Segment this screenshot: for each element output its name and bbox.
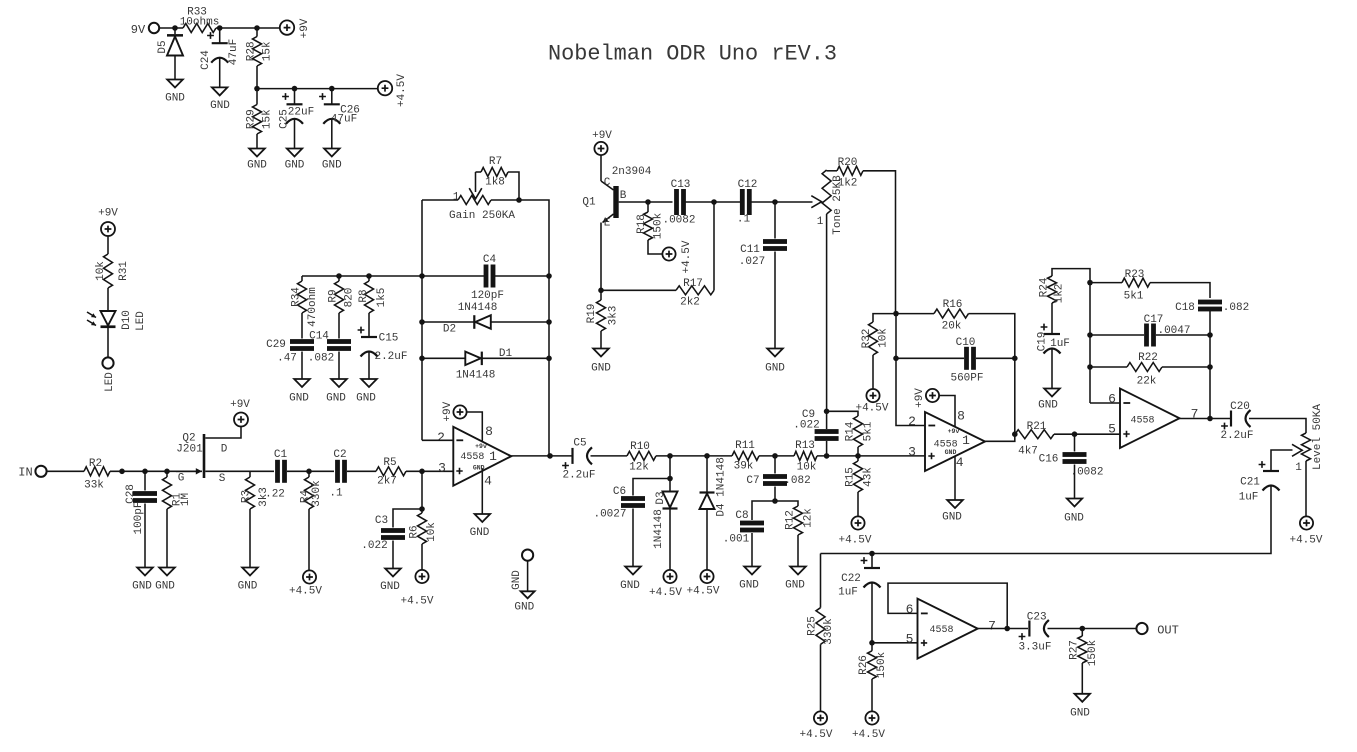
resistor R21 <box>1015 421 1054 458</box>
capacitor C24 <box>200 28 240 70</box>
svg-text:R22: R22 <box>1138 352 1158 364</box>
svg-text:.082: .082 <box>1223 302 1249 314</box>
junction <box>329 86 335 92</box>
svg-text:4558: 4558 <box>460 452 484 463</box>
wire pin5 <box>872 642 918 644</box>
junction <box>419 273 425 279</box>
wire <box>421 544 423 570</box>
svg-text:22k: 22k <box>1137 376 1157 388</box>
svg-text:.22: .22 <box>265 489 285 501</box>
svg-text:4: 4 <box>956 455 964 470</box>
wire <box>685 201 741 203</box>
svg-text:1N4148: 1N4148 <box>456 370 496 382</box>
ground <box>1064 499 1084 525</box>
svg-text:43k: 43k <box>863 467 875 487</box>
pin 7 label <box>1191 407 1199 422</box>
diode D5 <box>157 28 183 56</box>
wire <box>591 455 628 457</box>
svg-text:.082: .082 <box>784 475 810 487</box>
resistor R25 <box>807 554 836 645</box>
svg-text:8: 8 <box>485 424 493 439</box>
svg-text:C16: C16 <box>1039 454 1059 466</box>
wire <box>706 509 708 570</box>
ground <box>942 500 963 524</box>
ground <box>765 349 785 375</box>
power +4.5V <box>289 570 322 597</box>
svg-text:Level 50KA: Level 50KA <box>1312 404 1324 470</box>
wire <box>368 352 370 380</box>
wire <box>871 679 873 712</box>
junction <box>516 197 522 203</box>
wire <box>110 470 199 472</box>
wire <box>774 487 776 502</box>
wire pin6 <box>1090 402 1120 404</box>
svg-text:+9V: +9V <box>592 130 612 142</box>
svg-text:100pF: 100pF <box>133 501 145 534</box>
wire pin2 <box>422 439 453 441</box>
wire pin4 <box>481 468 483 514</box>
resistor R11 <box>732 440 759 473</box>
svg-text:R21: R21 <box>1027 421 1047 433</box>
svg-text:.022: .022 <box>793 420 819 432</box>
svg-text:1: 1 <box>962 433 970 448</box>
resistor R9 <box>328 276 356 313</box>
svg-text:3k3: 3k3 <box>608 306 620 326</box>
diode D3 <box>653 491 678 548</box>
svg-text:GND: GND <box>620 580 640 592</box>
svg-text:C7: C7 <box>746 475 759 487</box>
wire <box>826 441 828 456</box>
wire <box>759 455 794 457</box>
svg-text:C14: C14 <box>309 331 329 343</box>
svg-text:+9v: +9v <box>948 428 960 435</box>
svg-text:1M: 1M <box>180 493 192 506</box>
wire output U4 <box>978 628 1028 630</box>
wire <box>1081 663 1083 694</box>
svg-text:S: S <box>219 473 226 485</box>
ground <box>380 569 401 594</box>
svg-text:+9V: +9V <box>914 388 926 408</box>
svg-text:C19: C19 <box>1037 332 1049 352</box>
svg-text:GND: GND <box>1064 513 1084 525</box>
node 9V input <box>131 23 159 37</box>
wire <box>797 535 799 567</box>
svg-text:GND: GND <box>326 393 346 405</box>
node GND pad <box>511 550 535 614</box>
junction <box>667 476 673 482</box>
wire output <box>511 455 572 457</box>
wire <box>107 236 109 254</box>
capacitor C15 <box>358 327 408 363</box>
ground <box>470 514 491 539</box>
svg-text:2.2uF: 2.2uF <box>562 470 595 482</box>
junction <box>419 319 425 325</box>
svg-text:R9: R9 <box>328 289 340 302</box>
svg-text:+4.5V: +4.5V <box>838 535 871 547</box>
junction <box>1207 332 1213 338</box>
power +4.5V <box>855 389 888 415</box>
wire <box>669 509 671 570</box>
svg-text:1N4148: 1N4148 <box>653 509 665 549</box>
power +9V <box>98 208 118 237</box>
capacitor C1 <box>250 449 287 501</box>
svg-text:C8: C8 <box>735 510 748 522</box>
svg-text:C21: C21 <box>1240 477 1260 489</box>
wiper arrow <box>811 196 821 208</box>
svg-text:D2: D2 <box>443 324 456 336</box>
junction <box>546 356 552 362</box>
svg-text:C22: C22 <box>841 573 861 585</box>
svg-text:120pF: 120pF <box>471 290 504 302</box>
pin 8 label <box>485 424 493 439</box>
wire <box>256 134 258 149</box>
power +9V <box>442 401 467 421</box>
svg-text:C15: C15 <box>379 333 399 345</box>
resistor R22 <box>1090 352 1210 388</box>
svg-text:+4.5V: +4.5V <box>289 586 322 598</box>
capacitor C22 <box>838 554 880 599</box>
resistor R12 <box>775 501 815 535</box>
svg-text:+4.5V: +4.5V <box>681 240 693 273</box>
svg-text:D3: D3 <box>655 491 667 504</box>
wire <box>421 471 423 509</box>
junction <box>1087 364 1093 370</box>
svg-text:G: G <box>178 473 185 485</box>
op-amp U2 <box>925 412 985 471</box>
svg-text:GND: GND <box>785 580 805 592</box>
wire pin2 <box>896 314 925 426</box>
resistor R32 <box>861 314 896 355</box>
wire output U2 <box>985 434 1015 441</box>
svg-text:9V: 9V <box>131 23 146 37</box>
transistor Q1 2n3904 <box>582 155 651 290</box>
svg-text:C18: C18 <box>1175 302 1195 314</box>
resistor R31 <box>95 254 130 288</box>
svg-text:2k2: 2k2 <box>680 297 700 309</box>
svg-text:R5: R5 <box>383 457 396 469</box>
svg-text:5: 5 <box>1108 422 1116 437</box>
svg-text:+4.5V: +4.5V <box>400 596 433 608</box>
svg-text:GND: GND <box>247 160 267 172</box>
resistor R18 <box>636 202 665 254</box>
op-amp U4 <box>918 599 978 659</box>
capacitor C18 <box>1175 300 1249 314</box>
svg-text:R27: R27 <box>1069 640 1081 660</box>
svg-text:560PF: 560PF <box>950 373 983 385</box>
svg-text:10k: 10k <box>878 328 890 348</box>
power +4.5V <box>1289 516 1322 546</box>
power +4.5V <box>378 74 408 107</box>
svg-text:GND: GND <box>155 581 175 593</box>
svg-text:R10: R10 <box>630 441 650 453</box>
svg-text:C1: C1 <box>274 449 288 461</box>
power +4.5V <box>662 240 693 273</box>
junction <box>1012 431 1018 437</box>
pin 2 label <box>437 430 445 445</box>
svg-text:R15: R15 <box>845 467 857 487</box>
wire <box>1051 349 1053 389</box>
junction <box>546 273 552 279</box>
junction <box>1087 280 1093 286</box>
wire <box>491 200 549 456</box>
capacitor C7 <box>746 456 810 487</box>
svg-text:+9v: +9v <box>475 443 487 450</box>
junction <box>254 86 260 92</box>
wire <box>751 533 753 567</box>
ground <box>326 379 347 405</box>
wire <box>857 492 859 517</box>
junction <box>172 25 178 31</box>
capacitor C14 <box>308 331 351 365</box>
svg-text:470ohm: 470ohm <box>307 287 319 327</box>
wire tone to C9 <box>826 214 828 429</box>
svg-text:Nobelman ODR Uno rEV.3: Nobelman ODR Uno rEV.3 <box>548 42 837 67</box>
svg-text:+4.5V: +4.5V <box>649 587 682 599</box>
resistor R34 <box>291 276 320 327</box>
wire pin8 <box>467 412 483 441</box>
svg-text:1: 1 <box>1295 462 1302 474</box>
svg-text:GND: GND <box>591 363 611 375</box>
wire <box>216 27 281 29</box>
svg-text:.027: .027 <box>739 256 765 268</box>
svg-text:C11: C11 <box>740 244 760 256</box>
svg-text:R17: R17 <box>683 278 703 290</box>
wire <box>1051 303 1053 334</box>
junction <box>824 409 830 415</box>
svg-text:1: 1 <box>489 449 497 464</box>
svg-text:1: 1 <box>453 192 460 204</box>
junction <box>419 469 425 475</box>
wire <box>331 119 333 149</box>
wire output U3 <box>1180 418 1232 420</box>
wire <box>47 470 84 472</box>
svg-text:GND: GND <box>132 581 152 593</box>
resistor R16 <box>896 299 1015 434</box>
resistor R17 <box>601 202 714 309</box>
resistor R19 <box>586 290 620 331</box>
junction <box>366 273 372 279</box>
svg-text:47uF: 47uF <box>228 39 240 65</box>
svg-text:Q1: Q1 <box>582 197 596 209</box>
junction <box>306 469 312 475</box>
capacitor C6 <box>593 479 670 521</box>
wire <box>1054 433 1120 435</box>
wire <box>669 456 671 492</box>
junction <box>142 469 148 475</box>
svg-text:C4: C4 <box>483 254 497 266</box>
svg-text:3.3uF: 3.3uF <box>1018 642 1051 654</box>
wire <box>256 66 258 105</box>
svg-text:39k: 39k <box>734 461 754 473</box>
svg-text:R24: R24 <box>1039 277 1051 297</box>
junction <box>1012 356 1018 362</box>
ground <box>155 568 175 593</box>
svg-text:C24: C24 <box>200 50 212 70</box>
wire <box>392 541 394 569</box>
junction <box>419 506 425 512</box>
diode D2 <box>422 302 549 336</box>
resistor R27 <box>1069 629 1100 667</box>
svg-text:.1: .1 <box>737 214 751 226</box>
svg-text:33k: 33k <box>84 480 104 492</box>
svg-text:2n3904: 2n3904 <box>612 166 652 178</box>
svg-text:GND: GND <box>380 581 400 593</box>
junction <box>1004 626 1010 632</box>
junction <box>336 273 342 279</box>
ground <box>238 568 258 593</box>
svg-text:R19: R19 <box>586 304 598 324</box>
capacitor C20 <box>1220 401 1253 442</box>
svg-text:4: 4 <box>484 473 492 488</box>
svg-text:C23: C23 <box>1027 612 1047 624</box>
svg-text:.0082: .0082 <box>662 215 695 227</box>
ground <box>289 379 310 405</box>
svg-text:1k2: 1k2 <box>838 178 858 190</box>
svg-text:GND: GND <box>356 393 376 405</box>
pin 5 label <box>1108 422 1116 437</box>
LED D10 <box>87 310 147 331</box>
svg-text:D: D <box>221 444 228 456</box>
svg-text:10k: 10k <box>426 522 438 542</box>
svg-text:12k: 12k <box>803 508 815 528</box>
junction <box>893 311 899 317</box>
pin 3 label <box>438 461 446 476</box>
svg-text:R28: R28 <box>246 41 258 61</box>
capacitor C5 <box>562 438 595 482</box>
resistor R7 <box>476 156 520 200</box>
wire pin8 <box>939 396 955 427</box>
junction <box>667 453 673 459</box>
svg-text:Gain 250KA: Gain 250KA <box>449 210 515 222</box>
capacitor C16 <box>1039 434 1104 478</box>
svg-text:GND: GND <box>289 393 309 405</box>
resistor R15 <box>845 456 875 492</box>
svg-text:150k: 150k <box>876 651 888 678</box>
svg-text:5k1: 5k1 <box>863 421 875 441</box>
svg-text:GND: GND <box>765 363 785 375</box>
svg-text:OUT: OUT <box>1157 624 1179 638</box>
wire <box>656 455 732 457</box>
capacitor C11 <box>739 202 787 268</box>
svg-text:4k7: 4k7 <box>1018 446 1038 458</box>
svg-text:C5: C5 <box>573 438 586 450</box>
power +9V <box>230 399 250 427</box>
svg-text:1N4148: 1N4148 <box>716 457 728 497</box>
svg-text:12k: 12k <box>629 462 649 474</box>
resistor R10 <box>627 441 656 474</box>
resistor R20 <box>827 157 896 314</box>
svg-text:.1: .1 <box>329 488 343 500</box>
ground <box>285 149 305 172</box>
resistor R3 <box>241 471 271 509</box>
svg-text:GND: GND <box>238 581 258 593</box>
svg-text:R11: R11 <box>735 440 755 452</box>
pin 7 label <box>988 619 996 634</box>
resistor R2 <box>84 458 110 492</box>
ground <box>165 80 185 105</box>
pin 6 label <box>906 602 914 617</box>
junction <box>711 199 717 205</box>
svg-text:3: 3 <box>908 445 916 460</box>
junction <box>645 199 651 205</box>
wire <box>632 509 634 567</box>
svg-text:LED: LED <box>135 311 147 331</box>
svg-text:10k: 10k <box>797 462 817 474</box>
svg-text:10k: 10k <box>95 261 107 281</box>
svg-text:C29: C29 <box>266 339 286 351</box>
capacitor C4 <box>422 254 549 302</box>
capacitor C21 <box>1239 461 1280 503</box>
diode D4 <box>700 456 728 517</box>
pin 1 label <box>489 449 497 464</box>
svg-text:.082: .082 <box>308 353 334 365</box>
power +9V <box>914 388 939 408</box>
pin 8 label <box>957 409 965 424</box>
wire <box>219 58 221 88</box>
junction <box>119 469 125 475</box>
junction <box>824 453 830 459</box>
svg-text:.0027: .0027 <box>593 509 626 521</box>
svg-text:5: 5 <box>906 632 914 647</box>
junction <box>1207 416 1213 422</box>
svg-text:R20: R20 <box>838 157 858 169</box>
wire <box>338 313 340 339</box>
power +4.5V <box>799 711 832 741</box>
junction <box>869 640 875 646</box>
svg-text:GND: GND <box>322 160 342 172</box>
wire <box>301 313 303 339</box>
svg-text:J201: J201 <box>176 444 203 456</box>
junction <box>772 199 778 205</box>
svg-text:+4.5V: +4.5V <box>396 74 408 107</box>
junction <box>1207 364 1213 370</box>
junction <box>292 86 298 92</box>
svg-text:+4.5V: +4.5V <box>852 729 885 741</box>
junction <box>869 551 875 557</box>
svg-text:GND: GND <box>1038 400 1058 412</box>
node LED pad <box>102 357 116 392</box>
wire <box>347 470 376 472</box>
svg-text:R4: R4 <box>300 490 312 504</box>
capacitor C12 <box>737 179 758 226</box>
svg-text:R14: R14 <box>845 421 857 441</box>
ground <box>132 568 153 593</box>
resistor R5 <box>376 457 406 488</box>
svg-text:GND: GND <box>165 93 185 105</box>
svg-text:GND: GND <box>470 527 490 539</box>
ground <box>356 379 377 405</box>
svg-text:820: 820 <box>344 288 356 308</box>
wire <box>249 509 251 568</box>
wire <box>144 504 146 568</box>
title text <box>548 42 837 67</box>
wire pin4 <box>954 456 956 500</box>
wire <box>368 313 370 337</box>
potentiometer Level 50KA <box>1295 404 1324 474</box>
resistor R1 <box>163 471 193 509</box>
wire <box>752 201 813 203</box>
diode D1 <box>422 348 549 382</box>
wiper arrow <box>469 172 482 199</box>
wire <box>1209 311 1211 419</box>
svg-text:GND: GND <box>945 449 957 456</box>
svg-text:C28: C28 <box>125 484 137 504</box>
svg-text:C12: C12 <box>738 179 758 191</box>
resistor R23 <box>1090 269 1210 303</box>
resistor R28 <box>246 28 274 66</box>
power +4.5V <box>838 516 871 546</box>
wire <box>422 199 458 201</box>
